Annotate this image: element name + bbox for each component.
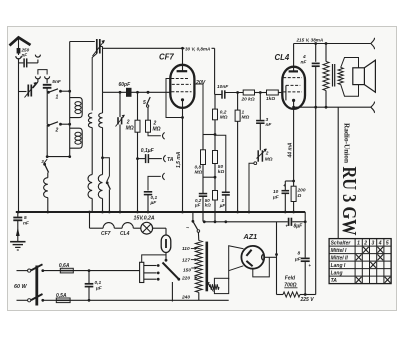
svg-text:8: 8	[298, 251, 301, 257]
wire screen col down	[202, 135, 204, 150]
svg-text:30 V, 0,8mA: 30 V, 0,8mA	[185, 47, 210, 52]
tube CL4 envelope	[282, 67, 305, 109]
wire 8uF2 to 225V	[304, 261, 306, 294]
node grid chain junctions	[236, 91, 261, 94]
wire 1M to bus	[237, 121, 239, 212]
resistor mains dropper	[195, 232, 202, 300]
label AZ1	[243, 232, 258, 241]
switch 5	[143, 91, 150, 120]
svg-text:µF: µF	[272, 195, 280, 201]
label 50 kOhm second	[205, 198, 212, 208]
label CF7	[159, 53, 174, 62]
svg-text:Lang I: Lang I	[331, 263, 346, 269]
anode CF7	[177, 48, 188, 71]
label 0.5A	[56, 293, 67, 299]
svg-text:Mittel II: Mittel II	[331, 255, 349, 261]
svg-text:µF: µF	[95, 286, 103, 292]
label Radio-Union	[343, 123, 351, 163]
terminal TA	[164, 155, 174, 163]
svg-text:127: 127	[182, 258, 190, 264]
wire band line vertical	[68, 42, 71, 159]
capacitor 1uF	[222, 192, 230, 195]
node cathode junction CF7	[181, 116, 184, 119]
resistor 0.2 MOhm	[213, 109, 218, 120]
svg-text:MΩ: MΩ	[242, 115, 250, 121]
resistor 50 kOhm second	[213, 191, 218, 201]
svg-text:0,5A: 0,5A	[56, 293, 67, 299]
wire 50k2 to bus	[214, 200, 216, 222]
label 220	[181, 276, 197, 282]
label 0.2 MOhm	[220, 110, 228, 121]
wire selector top	[142, 255, 166, 262]
svg-text:5: 5	[24, 215, 27, 221]
label 127	[182, 258, 197, 264]
svg-text:3: 3	[372, 240, 375, 246]
transformer core bar	[206, 242, 209, 292]
wire grid bus	[103, 91, 172, 93]
svg-text:60pF: 60pF	[119, 82, 132, 88]
svg-text:20 kΩ: 20 kΩ	[241, 97, 255, 103]
svg-text:µF: µF	[219, 203, 226, 208]
fuse 0.6A	[60, 268, 73, 273]
coil L2	[70, 128, 83, 148]
capacitor 60pF	[126, 88, 132, 97]
wire 0.8M down	[202, 165, 204, 194]
wire to 20k	[225, 93, 243, 95]
wire junction to band line	[46, 155, 70, 158]
resistor 1 kOhm	[267, 90, 279, 95]
wire link 177	[203, 176, 216, 179]
switch mains DP bar	[35, 266, 38, 306]
wire ballast down	[165, 253, 168, 262]
wire 200 to bus	[293, 202, 295, 213]
grid CL4 row2	[286, 85, 300, 100]
trimmer capacitor tuning	[116, 115, 125, 127]
resistor Feld 700	[283, 292, 300, 297]
label 60pF	[119, 82, 132, 88]
rotary contact 2	[144, 272, 160, 275]
label 0.1uF cathode	[150, 195, 158, 206]
wire grid1 return loop	[166, 79, 183, 118]
rotary contact 1	[144, 264, 160, 267]
svg-text:225 V: 225 V	[300, 297, 315, 303]
rotary contact 3	[144, 278, 160, 281]
wire mains lead 2	[17, 299, 31, 302]
wire 2M to grid cap terminal	[148, 132, 161, 136]
label RU 3 GW	[338, 167, 359, 236]
wire 1k to CL4 grid	[278, 92, 282, 94]
svg-text:0,1: 0,1	[95, 280, 102, 286]
svg-text:0,6A: 0,6A	[59, 263, 70, 269]
wire filter link	[203, 220, 277, 223]
terminal grid cap upper	[163, 132, 165, 139]
label 2 MOhm first	[126, 120, 134, 132]
label 60W	[14, 284, 27, 290]
svg-text:TA: TA	[331, 278, 338, 284]
svg-text:kΩ: kΩ	[218, 169, 225, 175]
label Feld 700	[284, 276, 297, 289]
node anode bus junction	[181, 47, 184, 50]
speaker cone	[364, 60, 375, 92]
wire 10nF lead	[215, 94, 222, 96]
svg-text:+: +	[309, 263, 312, 268]
heater winding box	[214, 278, 228, 293]
label 4nF	[301, 54, 308, 66]
winding left	[88, 113, 92, 128]
svg-text:0,1µF: 0,1µF	[141, 148, 155, 154]
wire AZ1 anode lower	[229, 266, 244, 271]
resistor 20 kOhm	[243, 90, 254, 95]
capacitor 0.1uF TA	[146, 154, 149, 163]
wire winding left down	[91, 128, 93, 175]
wire 1uF branch	[215, 135, 226, 191]
wire bus end corner	[304, 212, 306, 258]
label 0.2uF	[194, 198, 202, 208]
svg-text:+: +	[286, 224, 289, 229]
svg-text:AZ1: AZ1	[243, 232, 258, 241]
capacitor 10nF	[222, 90, 225, 98]
fuse 0.5A	[56, 298, 70, 303]
wire switch column down	[46, 125, 48, 157]
svg-text:4: 4	[378, 240, 382, 246]
svg-text:2: 2	[265, 151, 269, 157]
svg-text:2: 2	[363, 240, 367, 246]
svg-text:2: 2	[55, 128, 59, 134]
wire 10uF to bus	[284, 193, 286, 212]
wire speaker bottom	[341, 85, 359, 97]
label 110	[182, 246, 197, 252]
label 0.1uF mains	[95, 280, 103, 292]
wire 4nF column top	[315, 44, 317, 62]
capacitor 5nF	[43, 85, 52, 88]
svg-text:µF: µF	[150, 200, 158, 206]
svg-text:Lang: Lang	[331, 270, 343, 276]
potentiometer 2 MOhm	[257, 149, 267, 162]
wire cap to bus	[147, 195, 149, 212]
label 2 MOhm second	[153, 121, 161, 133]
switch mains lever 1	[31, 264, 44, 272]
label 20V	[195, 80, 206, 86]
wire lamp to ballast	[153, 228, 166, 235]
ground symbol	[10, 242, 25, 250]
grid CF7 row1	[171, 78, 189, 80]
wire chassis bus	[16, 211, 305, 213]
svg-text:+: +	[283, 183, 286, 188]
capacitor 5nF ground	[13, 212, 22, 220]
grid CL4 row3	[283, 91, 302, 93]
capacitor 10uF	[282, 183, 290, 193]
winding right	[99, 113, 103, 128]
svg-text:1kΩ: 1kΩ	[266, 96, 275, 102]
anode plates AZ1	[246, 250, 252, 267]
wire cathode line CF7	[182, 108, 184, 212]
transformer core lines	[333, 64, 335, 87]
coil L1	[70, 98, 83, 118]
grid CF7 row2	[172, 83, 191, 85]
wire fuse1 on	[73, 269, 139, 272]
wire to coil L3	[47, 173, 49, 178]
label 15V 0.2A	[134, 215, 155, 221]
wire 5nF down	[46, 88, 48, 92]
switch 1	[47, 89, 70, 101]
wire trimmer stub	[19, 91, 27, 93]
svg-text:Schalter: Schalter	[331, 240, 352, 246]
label CL4 heater	[120, 231, 130, 237]
svg-text:1: 1	[357, 240, 360, 246]
label 44 mA	[288, 142, 294, 158]
resistor 1 MOhm	[235, 110, 240, 121]
wire to jack A2	[27, 60, 38, 63]
wire TA line	[138, 158, 162, 160]
winding tap arrow	[207, 282, 219, 292]
switch 3	[41, 159, 48, 173]
wire output bottom	[292, 106, 371, 109]
trimmer capacitor antenna	[25, 83, 37, 98]
capacitor 8uF first	[286, 218, 292, 229]
wire 20k to 1k	[255, 92, 267, 94]
wire 0.2M down	[214, 120, 216, 151]
label 50 kOhm first	[218, 164, 225, 175]
wire filter link right	[277, 221, 288, 223]
svg-text:20V: 20V	[195, 80, 206, 86]
wire mains bottom	[89, 299, 229, 301]
grid CL4 row1	[283, 77, 302, 79]
wire selector to bottom	[171, 282, 173, 302]
node HT junctions	[314, 42, 327, 45]
capacitor 8uF second	[301, 258, 312, 268]
wire lower right to bus	[102, 198, 104, 212]
wire field return	[337, 107, 339, 238]
wire 215V bus	[294, 43, 371, 45]
wire B1 to trimmer	[33, 82, 38, 88]
switch mains lever 2	[31, 294, 44, 302]
antenna jack B1	[35, 76, 40, 82]
wire jack loop	[38, 70, 47, 75]
switch mains selector lever	[163, 263, 181, 281]
node TA junction	[136, 157, 139, 160]
heater CF7	[103, 223, 122, 229]
wire AZ1 anode upper	[229, 246, 244, 280]
wire screen lead	[194, 84, 203, 135]
wire 3nF to pot	[259, 123, 261, 150]
heater CL4	[122, 223, 141, 229]
terminal output top	[371, 38, 375, 49]
wire lower terminal to cap	[148, 176, 161, 190]
antenna jack A2	[35, 55, 40, 58]
lamp dial	[141, 222, 153, 234]
svg-text:MΩ: MΩ	[220, 115, 228, 121]
svg-text:5nF: 5nF	[52, 79, 62, 85]
wire rectifier output	[276, 222, 278, 295]
rotary switch body	[140, 262, 144, 282]
capacitor 3nF	[256, 121, 264, 124]
label 240	[181, 295, 190, 301]
svg-text:200: 200	[297, 188, 306, 194]
svg-text:RU 3 GW: RU 3 GW	[338, 167, 359, 236]
svg-text:Mittel I: Mittel I	[331, 248, 347, 254]
speaker driver box	[353, 68, 365, 85]
svg-text:8µF: 8µF	[294, 224, 304, 230]
wire trimmer right corner	[100, 46, 103, 48]
wire trimmer top left	[70, 41, 95, 43]
tube AZ1 envelope	[241, 246, 264, 269]
node grid bus junctions	[119, 91, 150, 94]
label 225V	[300, 297, 315, 303]
wire grid column upper	[102, 47, 104, 93]
resistor 200 Ohm	[291, 186, 296, 201]
winding secondary speaker	[338, 68, 343, 85]
label pot 2 MOhm	[265, 151, 273, 163]
label 1uF	[219, 198, 226, 208]
svg-text:15V,0,2A: 15V,0,2A	[134, 215, 155, 221]
svg-text:3: 3	[41, 159, 44, 164]
wire trimmer3 column	[119, 92, 121, 212]
filament AZ1	[262, 254, 264, 260]
ballast tube	[161, 235, 171, 253]
svg-text:µF: µF	[294, 257, 302, 263]
label 200 Ohm	[297, 188, 306, 200]
resistor 2 MOhm first	[135, 92, 140, 212]
label 0.1uF TA	[141, 148, 155, 154]
node branch junction	[101, 156, 104, 159]
label 0.6A	[59, 263, 70, 269]
svg-text:60 W: 60 W	[14, 284, 27, 290]
wire winding right down	[102, 92, 104, 174]
wire branch to switch 4	[103, 158, 110, 176]
label 1 kOhm	[266, 96, 275, 102]
svg-text:5: 5	[386, 240, 389, 246]
switch 2	[47, 122, 70, 134]
svg-text:MΩ: MΩ	[153, 127, 161, 133]
svg-text:220: 220	[181, 276, 190, 282]
coil L3	[44, 178, 48, 198]
label 215V 38mA	[296, 38, 324, 43]
capacitor 4nF	[312, 63, 320, 66]
tube CF7 envelope	[170, 65, 194, 108]
switch mains on-off	[186, 212, 200, 232]
svg-text:215 V, 38mA: 215 V, 38mA	[296, 38, 324, 43]
svg-text:MΩ: MΩ	[265, 157, 273, 163]
wire 1uF to bus	[225, 195, 227, 212]
terminal grid cap lower	[163, 173, 165, 180]
wire mains lead 1	[17, 269, 31, 272]
node cathode junction CL4	[292, 180, 295, 183]
wire cathode line CL4	[293, 109, 295, 186]
label 5nF ground	[23, 215, 30, 227]
svg-text:10: 10	[273, 189, 279, 195]
label 5nF	[52, 79, 62, 85]
label 8uF second	[294, 251, 302, 263]
resistor 2 MOhm second	[146, 120, 151, 132]
wire heater start	[90, 212, 104, 228]
cathode CF7	[181, 98, 184, 108]
wire lower left to bus	[91, 198, 93, 212]
wire fuse2 on	[70, 299, 90, 302]
label 250pF	[21, 48, 30, 58]
resistor 50 kOhm first	[213, 151, 218, 164]
label 150	[183, 266, 197, 273]
wire AZ1 filament bottom	[253, 257, 269, 277]
svg-text:150: 150	[183, 267, 191, 273]
label 10nF	[217, 84, 229, 90]
svg-text:Ω: Ω	[297, 193, 302, 199]
grid CF7 row3	[171, 91, 191, 93]
label 20 kOhm	[241, 97, 255, 103]
svg-text:MΩ: MΩ	[126, 126, 134, 132]
svg-text:MΩ: MΩ	[195, 170, 203, 176]
label CL4	[275, 53, 290, 62]
wire 0.2uF to bus	[202, 196, 204, 221]
wire coil L3 to bus	[47, 198, 49, 212]
wire 50k down	[214, 164, 216, 191]
svg-text:kΩ: kΩ	[205, 203, 212, 208]
wire switch 4 to bus	[108, 190, 110, 213]
capacitor 0.2uF	[199, 194, 207, 197]
svg-text:10nF: 10nF	[217, 84, 229, 90]
svg-text:1: 1	[56, 95, 59, 101]
wire speaker top	[341, 58, 359, 68]
coil lower left	[88, 175, 92, 199]
wire anode drop	[214, 48, 216, 109]
capacitor 0.1uF mains	[85, 271, 94, 301]
node bus junction dots	[17, 211, 295, 214]
svg-text:µF: µF	[194, 203, 201, 208]
terminal output bottom	[371, 102, 375, 113]
wire HT rail down	[315, 66, 317, 294]
label CF7 heater	[101, 231, 111, 237]
capacitor 0.1uF cathode	[144, 192, 152, 195]
wire pot wiper out	[249, 162, 257, 212]
wire antenna line down	[18, 63, 20, 212]
arrow ground	[16, 220, 20, 241]
wire junction link	[203, 133, 216, 136]
antenna	[10, 38, 31, 49]
wire antenna node	[19, 62, 24, 64]
label 1 MOhm	[242, 110, 250, 121]
label 0.8 MOhm	[195, 165, 203, 176]
resistor output primary	[323, 44, 329, 108]
table Schalter	[329, 239, 391, 284]
svg-text:~: ~	[186, 226, 189, 232]
svg-text:Radio-Union: Radio-Union	[343, 123, 351, 163]
capacitor antenna series	[24, 58, 27, 67]
wire band column	[46, 92, 48, 125]
label 1.5 mA	[176, 151, 182, 168]
wire anode top bus	[103, 47, 215, 49]
label 10uF	[272, 189, 280, 201]
svg-text:CF7: CF7	[101, 231, 111, 237]
antenna jack B2	[45, 76, 50, 83]
wire 3nF drop	[259, 93, 261, 120]
resistor 0.8 MOhm	[201, 150, 206, 165]
svg-text:CL4: CL4	[120, 231, 130, 237]
cathode CL4	[292, 99, 295, 109]
anode CL4	[289, 44, 298, 72]
label 8uF first	[294, 224, 304, 230]
svg-text:5: 5	[143, 100, 146, 106]
wire filter to bus corner	[292, 220, 306, 223]
wire 225V line	[277, 293, 316, 296]
svg-text:CF7: CF7	[159, 53, 174, 62]
svg-text:CL4: CL4	[275, 53, 290, 62]
wire mains 2 to fuse	[43, 299, 57, 301]
svg-text:Feld: Feld	[285, 276, 296, 282]
trimmer capacitor main	[93, 39, 105, 56]
svg-text:TA: TA	[167, 157, 174, 163]
wire trimmer bottom to winding	[92, 54, 97, 111]
label 30V 0.8mA	[185, 45, 212, 51]
wire mains 1 to fuse	[43, 270, 61, 272]
